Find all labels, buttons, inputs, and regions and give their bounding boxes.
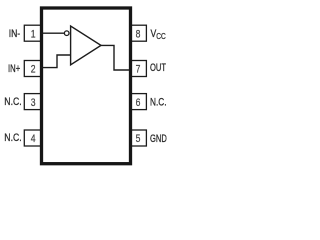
svg-text:N.C.: N.C. [150,97,167,109]
svg-text:2: 2 [31,64,36,76]
svg-text:N.C.: N.C. [4,132,21,144]
label IN- (pin 1) [9,28,21,40]
wire pin2 to non-inverting input [41,55,71,68]
svg-text:IN-: IN- [9,28,21,40]
label N.C. (pin 6) [150,97,167,109]
label OUT (pin 7) [150,62,166,74]
label N.C. (pin 3) [4,96,21,108]
pin 7 box [128,61,146,77]
pin 8 box [128,25,146,41]
wire op-amp output to pin 7 [100,45,130,70]
svg-text:7: 7 [136,64,141,76]
pin 6 box [128,94,146,110]
inverting input bubble [64,31,69,36]
svg-text:GND: GND [150,133,167,145]
svg-text:1: 1 [31,28,36,40]
pin 4 box [24,130,42,146]
label GND (pin 5) [150,133,167,145]
pin 2 box [24,61,42,77]
pin number 1 [31,28,36,40]
pin number 2 [31,64,36,76]
pin 3 box [24,94,42,110]
pin number 7 [136,64,141,76]
svg-text:8: 8 [136,28,141,40]
label N.C. (pin 4) [4,132,21,144]
svg-text:6: 6 [136,97,141,109]
pin number 5 [136,133,141,145]
svg-text:IN+: IN+ [8,63,20,75]
svg-text:N.C.: N.C. [4,96,21,108]
pin number 3 [31,97,36,109]
svg-text:4: 4 [31,133,36,145]
svg-text:3: 3 [31,97,36,109]
label IN+ (pin 2) [8,63,20,75]
svg-text:5: 5 [136,133,141,145]
pin 1 box [24,25,42,41]
pin number 8 [136,28,141,40]
svg-text:OUT: OUT [150,62,166,74]
pin 5 box [128,130,146,146]
IC package body U1 [42,8,131,164]
wire pin1 to inverting input [41,32,65,34]
svg-text:CC: CC [156,31,166,41]
op-amp triangle [71,26,101,65]
label VCC (pin 8) [151,28,166,41]
pin number 6 [136,97,141,109]
pin number 4 [31,133,36,145]
